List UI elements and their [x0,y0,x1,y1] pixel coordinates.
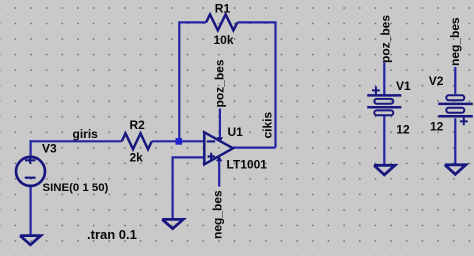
op-amp inverting input mark [207,140,215,142]
svg-text:neg_bes: neg_bes [448,17,462,66]
ground under V2 [445,165,466,175]
wire [30,140,32,157]
svg-text:R2: R2 [130,118,146,132]
voltage source V3 circle [16,157,45,186]
wire [233,147,276,149]
battery V2 plate long top [438,103,473,106]
wire [238,22,276,147]
wire [31,140,122,142]
wire [30,186,32,236]
svg-text:12: 12 [396,122,410,136]
svg-text:SINE(0 1 50): SINE(0 1 50) [43,182,109,194]
svg-text:U1: U1 [228,125,244,139]
wire [383,116,385,166]
op-amp U1 triangle [204,132,233,164]
battery V2 plus mark [460,118,468,126]
battery V2 plate short 1 [446,95,464,100]
resistor R2 [122,133,152,149]
svg-text:V1: V1 [396,79,411,93]
V3 minus mark [25,177,36,179]
op-amp V- pin arrowhead [216,156,222,161]
svg-text:poz_bes: poz_bes [379,15,393,63]
op-amp V+ pin arrowhead [217,137,223,142]
resistor R1 [206,14,237,30]
op-amp V- power pin [218,161,220,187]
V3 plus mark [25,157,35,164]
battery V1 plate short 1 [374,99,393,104]
ground under V1 [374,165,395,175]
svg-text:2k: 2k [130,150,144,164]
svg-text:giris: giris [73,127,99,141]
node junction at inverting input [176,138,183,145]
wire [173,157,205,219]
svg-text:V3: V3 [42,141,57,155]
svg-text:V2: V2 [429,74,444,88]
svg-text:10k: 10k [214,33,234,47]
ground under op-amp non-inverting input [162,219,183,228]
battery V1 plate long bottom [367,106,401,109]
battery V1 plus mark [372,87,380,95]
wire [152,140,205,142]
battery V2 plate long bottom [438,115,473,118]
battery V2 plate short 2 [446,108,464,113]
battery V1 plate long top [367,94,401,97]
wire [454,67,456,94]
wire [454,118,456,165]
svg-text:LT1001: LT1001 [227,158,268,172]
svg-text:cikis: cikis [261,111,275,138]
wire [179,22,206,142]
wire [383,63,385,96]
svg-text:poz_bes: poz_bes [213,59,227,107]
op-amp non-inverting input mark [208,153,215,160]
battery V1 plate short 2 [374,110,393,115]
svg-text:.tran 0.1: .tran 0.1 [87,227,137,242]
svg-text:R1: R1 [215,2,231,16]
ground under V3 [20,236,41,245]
svg-text:12: 12 [430,119,444,133]
svg-text:neg_bes: neg_bes [211,190,225,239]
op-amp V+ power pin [219,109,221,139]
